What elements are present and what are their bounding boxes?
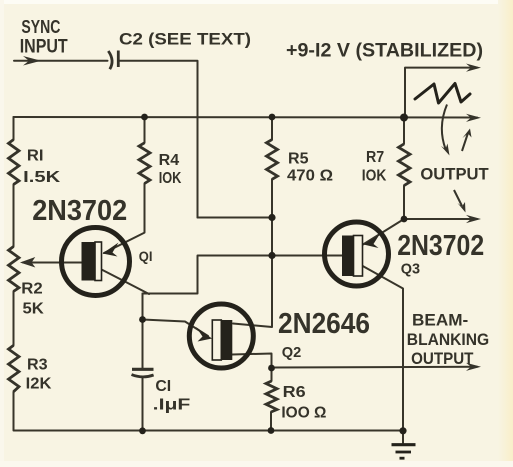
- svg-text:2N3702: 2N3702: [397, 230, 484, 262]
- svg-text:QI: QI: [139, 248, 153, 264]
- wire beam blanking line: [272, 366, 478, 369]
- transistor Q2: [189, 304, 253, 368]
- junction R7 top rail supply: [400, 114, 408, 122]
- junction beam-blanking R6 top: [268, 365, 275, 372]
- junction R6 bottom rail: [268, 427, 275, 434]
- wire R4 leads: [144, 117, 146, 143]
- arrowhead top rail output: [466, 114, 481, 122]
- capacitor C1: [132, 369, 154, 377]
- junction R5 top rail: [269, 114, 276, 121]
- svg-text:OUTPUT: OUTPUT: [411, 349, 474, 368]
- svg-text:IOK: IOK: [362, 167, 387, 184]
- wire C2 branch to R5: [198, 217, 273, 219]
- small arrow up-right: [462, 133, 468, 151]
- wire Q3 collector: [360, 265, 403, 431]
- wire R6 bottom lead: [270, 412, 272, 431]
- svg-text:R7: R7: [366, 149, 384, 166]
- wire Q3 base line: [143, 256, 344, 294]
- svg-text:R2: R2: [21, 281, 42, 298]
- ground stem: [402, 431, 404, 443]
- arrowhead output line 2: [466, 215, 481, 223]
- svg-text:+9-I2 V (STABILIZED): +9-I2 V (STABILIZED): [286, 41, 483, 62]
- wire R5 leads: [271, 117, 273, 140]
- svg-text:SYNC: SYNC: [21, 17, 60, 37]
- arrowhead sync input: [23, 56, 41, 66]
- arrowhead +V line: [466, 64, 481, 72]
- sawtooth waveform: [415, 84, 470, 104]
- junction Q3 emitter R7 output: [401, 216, 408, 223]
- junction Q3 base line to R5 lead: [268, 252, 275, 259]
- svg-text:OUTPUT: OUTPUT: [420, 166, 488, 184]
- wire top rail: [14, 116, 478, 119]
- junction ground node: [399, 427, 406, 434]
- resistor R4: [139, 143, 150, 184]
- ground: [392, 445, 416, 459]
- capacitor C2: [108, 51, 118, 70]
- resistor R3: [9, 345, 20, 391]
- wire output line 2: [404, 218, 477, 220]
- wire Q1 collector: [102, 270, 150, 295]
- svg-text:I.5K: I.5K: [23, 169, 61, 186]
- svg-text:5K: 5K: [23, 301, 45, 318]
- wire Q3 emitter: [363, 219, 404, 245]
- svg-text:CI: CI: [155, 378, 171, 395]
- svg-text:2N3702: 2N3702: [32, 195, 127, 227]
- wire sync input: [14, 60, 108, 62]
- svg-text:Q2: Q2: [282, 344, 302, 361]
- transistor Q3: [325, 222, 389, 286]
- transistor Q1: [62, 228, 130, 296]
- svg-text:BEAM-: BEAM-: [412, 311, 468, 330]
- svg-text:Q3: Q3: [401, 260, 420, 277]
- resistor R6: [266, 381, 277, 412]
- wire +V line: [405, 68, 477, 118]
- svg-text:C2 (SEE TEXT): C2 (SEE TEXT): [119, 30, 251, 49]
- wire Q2 emitter: [143, 320, 209, 337]
- svg-text:R6: R6: [283, 384, 306, 401]
- wire R7 leads: [403, 118, 405, 144]
- svg-text:I2K: I2K: [26, 376, 53, 393]
- svg-text:RI: RI: [27, 148, 44, 165]
- svg-text:R3: R3: [27, 357, 48, 374]
- junction Q2 emitter node: [139, 316, 146, 323]
- svg-text:IOO Ω: IOO Ω: [281, 405, 326, 422]
- resistor R2: [9, 247, 20, 292]
- resistor R1: [9, 140, 20, 185]
- svg-text:R5: R5: [288, 151, 309, 168]
- resistor R5: [267, 140, 278, 180]
- svg-text:.IμF: .IμF: [153, 397, 191, 414]
- wire C1 vertical: [142, 294, 144, 370]
- junction C1 bottom rail: [139, 427, 146, 434]
- wire C2 to corner: [119, 61, 198, 218]
- wire Q1 base: [23, 262, 82, 264]
- svg-text:R4: R4: [159, 152, 180, 169]
- svg-text:INPUT: INPUT: [20, 37, 68, 58]
- wire Q2 base1: [232, 354, 272, 382]
- resistor R7: [399, 144, 411, 186]
- svg-text:BLANKING: BLANKING: [407, 330, 489, 349]
- potentiometer wiper arrow R2: [22, 258, 35, 267]
- wire left rail: [13, 117, 15, 140]
- junction C2 to R5 lead: [268, 214, 275, 221]
- small arrow down-right: [454, 190, 462, 206]
- arrowhead beam blanking: [466, 363, 481, 371]
- svg-text:2N2646: 2N2646: [278, 308, 370, 340]
- svg-text:470 Ω: 470 Ω: [287, 168, 333, 185]
- junction R4 top rail: [141, 114, 148, 121]
- curved arrow to output: [442, 105, 447, 150]
- svg-text:IOK: IOK: [159, 170, 182, 187]
